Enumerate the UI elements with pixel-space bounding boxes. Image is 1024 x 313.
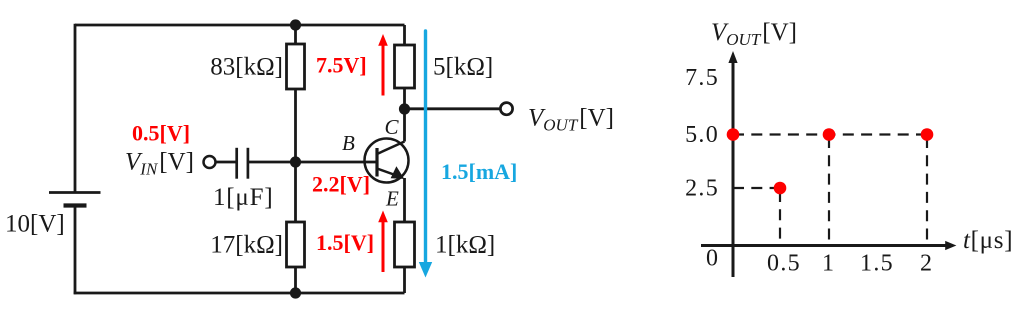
svg-text:10[V]: 10[V]	[5, 211, 65, 238]
svg-text:B: B	[342, 131, 355, 155]
svg-text:17[kΩ]: 17[kΩ]	[210, 232, 283, 259]
svg-text:0.5[V]: 0.5[V]	[132, 121, 190, 146]
graph dashed line 5.0 level	[733, 135, 927, 246]
transistor Q1 body	[365, 139, 409, 183]
wire R4 bottom	[403, 267, 406, 293]
capacitor C1	[237, 148, 248, 179]
svg-text:1: 1	[822, 251, 834, 277]
svg-text:7.5: 7.5	[685, 65, 719, 91]
svg-text:0.5: 0.5	[767, 251, 801, 277]
svg-text:0: 0	[706, 246, 718, 272]
svg-text:7.5V]: 7.5V]	[316, 53, 367, 78]
wire capacitor to base	[249, 161, 377, 164]
svg-text:1[μF]: 1[μF]	[213, 184, 273, 211]
node top rail R1	[290, 19, 301, 30]
graph x-axis arrowhead	[945, 241, 956, 250]
svg-text:E: E	[385, 187, 399, 211]
input terminal	[204, 156, 216, 168]
graph y-axis arrowhead	[728, 51, 737, 63]
wire input to capacitor	[216, 161, 237, 164]
wire R3 top	[403, 25, 406, 45]
graph data point (0, 5.0)	[727, 128, 740, 141]
svg-text:2: 2	[920, 251, 932, 277]
transistor Q1 base bar	[375, 148, 378, 177]
graph data point (1, 5.0)	[823, 128, 836, 141]
wire left rail lower	[74, 206, 77, 295]
graph y-axis	[701, 60, 946, 277]
transistor Q1 collector stroke	[377, 142, 405, 155]
svg-text:1.5: 1.5	[860, 251, 894, 277]
wire output	[405, 107, 501, 110]
svg-text:1.5[mA]: 1.5[mA]	[441, 159, 517, 184]
wire R2 bottom	[294, 267, 297, 293]
resistor R1	[287, 44, 305, 89]
output terminal	[500, 103, 512, 115]
svg-text:C: C	[385, 115, 400, 139]
wire R1 top	[294, 25, 297, 44]
transistor Q1 emitter stroke	[377, 169, 398, 177]
voltage arrow across R4 (red)	[378, 211, 388, 273]
svg-text:VIN[V]: VIN[V]	[125, 149, 194, 179]
current arrow Ic (blue)	[419, 31, 432, 278]
svg-text:VOUT[V]: VOUT[V]	[528, 105, 614, 135]
resistor R4	[395, 222, 415, 267]
svg-text:2.2[V]: 2.2[V]	[312, 172, 370, 197]
wire left rail upper	[74, 24, 77, 193]
svg-text:83[kΩ]: 83[kΩ]	[210, 54, 283, 81]
wire R3 bottom to output node	[403, 88, 406, 142]
transistor Q1 emitter arrowhead	[391, 166, 405, 179]
resistor R3	[395, 45, 415, 88]
svg-text:5[kΩ]: 5[kΩ]	[433, 54, 493, 81]
svg-text:1.5[V]: 1.5[V]	[316, 230, 374, 255]
svg-text:1[kΩ]: 1[kΩ]	[435, 232, 495, 259]
voltage arrow across R3 (red)	[378, 34, 388, 96]
node collector output	[399, 103, 410, 114]
svg-text:2.5: 2.5	[685, 176, 719, 202]
wire top rail	[75, 24, 405, 27]
svg-text:5.0: 5.0	[685, 122, 719, 148]
graph data point (2, 5.0)	[921, 128, 934, 141]
node base divider	[290, 156, 301, 167]
svg-text:t[μs]: t[μs]	[963, 227, 1013, 254]
graph data point (0.5, 2.5)	[774, 182, 787, 195]
wire R1 bottom to R2 top	[294, 89, 297, 222]
battery V1	[49, 193, 101, 206]
node bottom rail	[290, 287, 301, 298]
wire bottom rail	[74, 292, 405, 295]
resistor R2	[287, 222, 305, 267]
svg-text:VOUT[V]: VOUT[V]	[711, 19, 797, 49]
wire emitter down to R4	[403, 178, 406, 222]
